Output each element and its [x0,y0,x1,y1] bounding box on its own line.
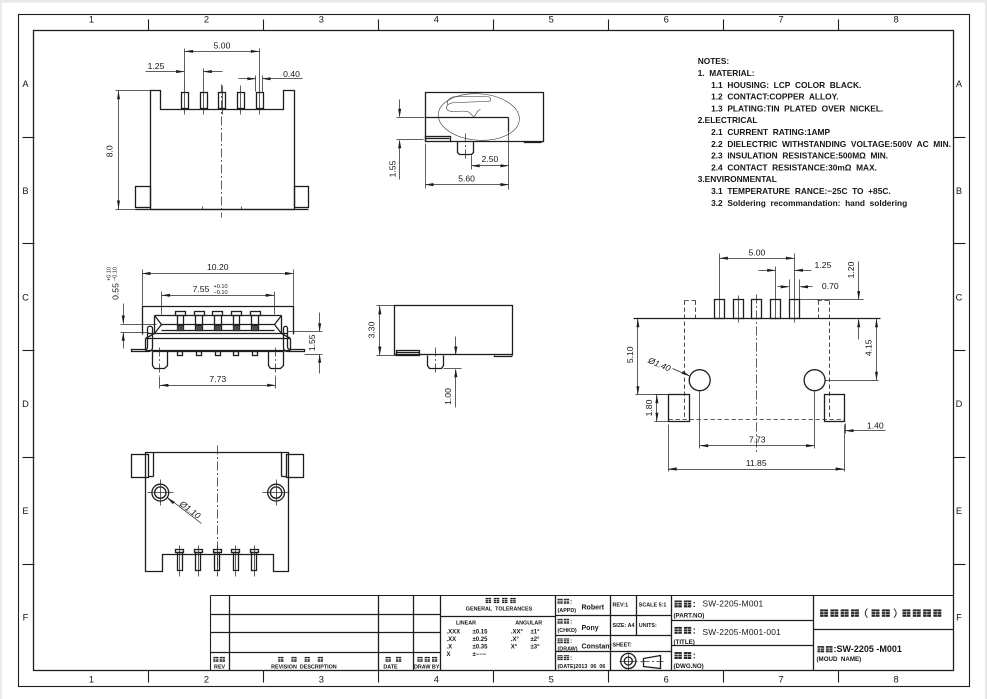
view3 right round foot [269,352,284,369]
view6 right mounting tab [287,455,304,478]
view3 lower band [146,334,155,339]
view3 right leg bracket [284,326,305,351]
svg-text:5.00: 5.00 [749,247,766,257]
svg-text:2.3 INSULATION RESISTANCE:50: 2.3 INSULATION RESISTANCE:500MΩ MIN. [711,151,888,161]
svg-text::: : [570,638,572,645]
view3 contact 1 [176,312,186,316]
view6 centerline [217,446,219,576]
view3 mating pocket [155,315,282,317]
svg-text:±0.35: ±0.35 [473,644,489,650]
svg-text:(MOUD NAME): (MOUD NAME) [817,656,862,663]
view2 dim 2.50 [471,156,473,170]
svg-text:2.4 CONTACT RESISTANCE:30mΩ: 2.4 CONTACT RESISTANCE:30mΩ MAX. [711,162,877,172]
view3 dim 1.55 [288,331,323,333]
svg-text:.X: .X [447,644,453,650]
svg-text:(DWG.NO): (DWG.NO) [674,663,704,670]
view3 contact 2 [195,312,205,316]
view3 dim 0.55 with tolerance [121,324,157,326]
svg-text:ANGULAR: ANGULAR [515,620,542,626]
view2 contact spring hook [447,97,491,117]
view3 contact 5 [251,312,261,316]
svg-text:±0.15: ±0.15 [473,630,489,636]
svg-text:GENERAL TOLERANCES: GENERAL TOLERANCES [466,607,533,613]
view4 body outline [395,306,513,355]
projection symbol cone [644,656,661,669]
svg-text:Constant: Constant [582,644,613,651]
svg-text:4: 4 [434,14,439,24]
svg-text:E: E [22,506,28,516]
view6 left hole [152,484,169,501]
svg-text:REV: REV [214,665,225,671]
view1 dim 8.0 [116,90,151,92]
svg-text:5.60: 5.60 [458,174,475,184]
view2 contact spring oval [437,91,521,143]
view1 connector body outline [151,91,295,210]
view3 dim 7.55 with tolerance [161,292,163,315]
svg-text:5: 5 [549,675,554,685]
svg-text:11.85: 11.85 [746,458,767,468]
svg-text:7: 7 [779,14,784,24]
view3 pin tip 2 [197,352,202,356]
svg-text:(CHKD): (CHKD) [558,628,577,634]
view3 contact 3 [213,312,223,316]
svg-text:F: F [956,613,962,623]
svg-text:Pony: Pony [582,625,599,632]
footprint left bottom pad [669,395,690,422]
svg-text::: : [693,599,696,609]
svg-text:1.55: 1.55 [307,334,317,351]
view3 left round foot [153,352,168,369]
svg-text:E: E [956,506,962,516]
view1 left foot [136,187,151,208]
title block approvals [610,596,612,671]
svg-text:3.1 TEMPERATURE RANCE:−25C: 3.1 TEMPERATURE RANCE:−25C TO +85C. [711,186,891,196]
title block outer lines [211,595,954,597]
svg-text:A: A [22,79,29,89]
view1 pin 5 [257,93,264,109]
svg-text:0.40: 0.40 [283,69,300,79]
svg-text:.X°: .X° [511,637,520,643]
svg-text:(DRAW): (DRAW) [558,647,578,653]
svg-text:D: D [22,399,29,409]
svg-text:8: 8 [893,14,898,24]
footprint pad 4 [771,300,781,319]
view6 pin 2 [195,550,203,553]
svg-text::: : [693,625,696,635]
svg-text:C: C [22,292,29,302]
svg-text:(APPD): (APPD) [558,608,577,614]
view1 pin 4 [238,93,245,109]
footprint pad 2 [734,300,744,319]
footprint dim 1.20 [800,299,864,301]
svg-text:6: 6 [664,14,669,24]
svg-text:.XXX: .XXX [447,630,461,636]
svg-text:(PART.NO): (PART.NO) [674,612,705,619]
svg-text:A: A [956,79,963,89]
footprint hole diameter leader [682,371,690,376]
view6 pin 4 [232,550,240,553]
view2 left solder tab [426,137,451,142]
footprint dashed body outline [684,301,686,420]
svg-text:±3°: ±3° [531,644,541,650]
view1 dim 5.00 [184,49,186,87]
view2 dim 1.55 [397,117,425,119]
svg-text::SW-2205 -M001: :SW-2205 -M001 [834,644,902,654]
svg-text:NOTES:: NOTES: [698,56,730,66]
view3 housing top box [143,307,294,335]
view2 post centerline [465,134,467,161]
page edge shading [0,0,987,3]
view6 right hole [268,484,285,501]
svg-text::: : [570,655,572,662]
svg-text:SIZE: A4: SIZE: A4 [613,623,635,629]
svg-text:1.25: 1.25 [148,61,165,71]
svg-text:8.0: 8.0 [105,145,115,157]
view2 center post [458,142,474,155]
svg-text:2.ELECTRICAL: 2.ELECTRICAL [698,115,758,125]
svg-text:Robert: Robert [582,605,605,612]
svg-text:DRAW BY: DRAW BY [414,665,440,671]
svg-text:UNITS:: UNITS: [639,623,657,629]
svg-text:1.40: 1.40 [867,420,884,430]
view1 pin 3 [219,93,226,109]
svg-text:.XX: .XX [447,637,457,643]
view2 right bottom tab [525,142,543,143]
svg-text:1. MATERIAL:: 1. MATERIAL: [698,68,755,78]
footprint dim 5.10 [636,394,669,396]
svg-text:1.55: 1.55 [387,160,397,177]
view3 pin tip 5 [253,352,258,356]
svg-text:D: D [956,399,963,409]
footprint right bottom pad [825,395,845,422]
svg-text:6: 6 [664,675,669,685]
view4 dim 1.00 [455,337,457,355]
footprint dim 7.73 [700,445,815,447]
title block tolerance section [555,596,557,671]
view3 left leg bracket [132,326,153,351]
view6 body outline [146,453,289,572]
svg-text:3: 3 [319,14,324,24]
svg-text:1.00: 1.00 [443,388,453,405]
svg-text:−0.10: −0.10 [214,290,228,296]
svg-text:3.30: 3.30 [367,321,377,338]
footprint dim 1.40 [845,424,847,434]
view4 left solder tab [397,351,420,356]
view2 body outline [426,93,544,142]
svg-text:5: 5 [549,14,554,24]
svg-text:F: F [23,613,29,623]
view4 right bottom tab [495,356,513,357]
footprint hole extension lines [699,391,701,449]
view6 hole diameter leader [167,498,175,504]
view3 contact 4 [232,312,242,316]
view6 pin 3 [214,550,222,553]
svg-text:SHEET:: SHEET: [613,642,632,648]
footprint dim 1.25 [775,267,777,320]
svg-text:SW-2205-M001-001: SW-2205-M001-001 [703,627,782,637]
svg-text:1.3 PLATING:TIN PLATED OVER: 1.3 PLATING:TIN PLATED OVER NICKEL. [711,103,883,113]
view1 pin 1 [182,93,189,109]
view3 pin tip 3 [216,352,221,356]
footprint dim 4.15 [876,319,878,381]
svg-text:B: B [22,186,28,196]
svg-text:1: 1 [89,675,94,685]
svg-text:+0.10: +0.10 [214,284,228,290]
svg-text:3: 3 [319,675,324,685]
svg-text:.XX°: .XX° [511,630,524,636]
svg-text:2: 2 [204,675,209,685]
view1 right foot [295,187,309,208]
svg-text:REVISION DESCRIPTION: REVISION DESCRIPTION [271,665,337,671]
view2 contact edge line [508,118,510,132]
svg-text:7.55: 7.55 [193,284,210,294]
view6 pin 1 [176,550,184,553]
svg-text:C: C [956,292,963,302]
svg-text:1.1 HOUSING: LCP COLOR BLA: 1.1 HOUSING: LCP COLOR BLACK. [711,80,861,90]
svg-text:5.10: 5.10 [625,346,635,363]
svg-text:7: 7 [779,675,784,685]
svg-text::: : [570,598,572,605]
svg-text:±2°: ±2° [531,637,541,643]
footprint pad 5 [790,300,800,319]
svg-text:B: B [956,186,962,196]
view2 mating line [426,117,509,119]
svg-text:7.73: 7.73 [209,374,226,384]
view3 dim 7.73 [159,377,161,389]
footprint dim 1.80 [655,394,669,396]
footprint pad 3 [752,300,762,319]
svg-text:SCALE 5:1: SCALE 5:1 [639,602,667,608]
view4 dim 3.30 [377,305,395,307]
svg-text:−0.10: −0.10 [112,267,118,281]
view6 pin 5 [251,550,259,553]
svg-text:SW-2205-M001: SW-2205-M001 [703,599,764,609]
svg-text:1.25: 1.25 [815,260,832,270]
svg-text:8: 8 [893,675,898,685]
view1 pin 2 [201,93,208,109]
footprint pad 1 [715,300,725,319]
svg-text:(DATE)2013 06 06: (DATE)2013 06 06 [558,664,606,670]
svg-text:REV:1: REV:1 [613,602,629,608]
svg-text:1.2 CONTACT:COPPER ALLOY.: 1.2 CONTACT:COPPER ALLOY. [711,92,839,102]
svg-text:±1°: ±1° [531,630,541,636]
svg-text:0.70: 0.70 [822,281,839,291]
svg-text:X°: X° [511,644,518,650]
zone ticks top/bottom [148,20,150,31]
view3 face bottom line [148,333,288,335]
title block revision headers [213,657,218,662]
svg-text:4: 4 [434,675,439,685]
svg-text:(TITLE): (TITLE) [674,639,695,646]
svg-text:2: 2 [204,14,209,24]
view1 centerline [221,85,223,218]
footprint left hole [689,370,710,391]
view4 post centerline [435,348,437,373]
view3 pin tip 1 [178,352,183,356]
svg-text::: : [570,618,572,625]
title block company name [814,629,954,631]
svg-text:LINEAR: LINEAR [456,620,476,626]
svg-text:1.80: 1.80 [644,399,654,416]
view3 dim 10.20 [142,270,144,306]
view1 bottom tick marks [202,207,204,210]
projection symbol circle [621,653,636,668]
view1 dim 1.25 [203,69,205,87]
svg-text:4.15: 4.15 [864,339,874,356]
view2 dim 5.60 [425,144,427,189]
view4 center post [428,356,444,369]
svg-text:3.2 Soldering recommandation: 3.2 Soldering recommandation: hand solde… [711,198,907,208]
svg-text:10.20: 10.20 [207,262,229,272]
svg-text:±0.25: ±0.25 [473,637,489,643]
footprint right hole [804,370,825,391]
title block rev/size/sheet [636,596,638,636]
svg-text:2.50: 2.50 [482,154,499,164]
svg-text:7.73: 7.73 [749,434,766,444]
view3 pin tip 4 [234,352,239,356]
svg-text:DATE: DATE [383,665,398,671]
view3 foot centerlines [159,348,161,376]
footprint top reference line [634,318,881,320]
svg-text:X: X [447,652,451,658]
svg-text:0.55: 0.55 [110,283,120,300]
footprint dim 5.00 [719,254,721,319]
svg-text:±−−−: ±−−− [473,652,487,658]
svg-text:1: 1 [89,14,94,24]
svg-text:1.20: 1.20 [846,261,856,278]
svg-text:2.2 DIELECTRIC WITHSTANDING: 2.2 DIELECTRIC WITHSTANDING VOLTAGE:500V… [711,139,951,149]
footprint dim 0.70 [789,280,791,300]
title block revision table [229,596,231,671]
footprint centerline [756,295,758,453]
title block part number [813,596,815,671]
footprint dim 11.85 [668,425,670,472]
zone ticks left/right [23,137,35,139]
svg-text:5.00: 5.00 [214,41,231,51]
svg-text::: : [693,651,696,661]
svg-text:3.ENVIRONMENTAL: 3.ENVIRONMENTAL [698,174,777,184]
view6 left mounting tab [132,455,149,478]
view1 dim 0.40 [255,76,257,92]
svg-text:2.1 CURRENT RATING:1AMP: 2.1 CURRENT RATING:1AMP [711,127,830,137]
